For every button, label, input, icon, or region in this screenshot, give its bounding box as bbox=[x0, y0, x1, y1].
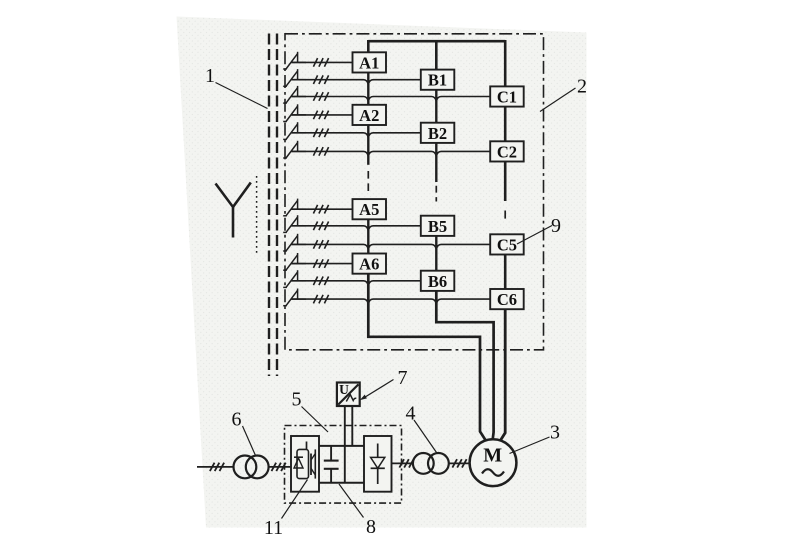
svg-text:U: U bbox=[339, 382, 349, 397]
svg-text:7: 7 bbox=[398, 367, 408, 389]
svg-text:4: 4 bbox=[406, 403, 416, 425]
svg-text:A2: A2 bbox=[359, 106, 379, 125]
svg-text:B5: B5 bbox=[428, 217, 447, 236]
svg-text:M: M bbox=[483, 445, 502, 467]
svg-text:B1: B1 bbox=[428, 71, 447, 90]
svg-text:A5: A5 bbox=[359, 200, 379, 219]
svg-text:C1: C1 bbox=[497, 88, 517, 107]
svg-text:3: 3 bbox=[550, 422, 560, 444]
svg-text:6: 6 bbox=[232, 409, 242, 431]
svg-text:2: 2 bbox=[577, 76, 587, 98]
svg-text:B2: B2 bbox=[428, 124, 447, 143]
svg-text:9: 9 bbox=[551, 215, 561, 237]
svg-text:1: 1 bbox=[205, 65, 215, 87]
svg-text:A1: A1 bbox=[359, 53, 379, 72]
svg-text:C5: C5 bbox=[497, 235, 517, 254]
svg-text:11: 11 bbox=[264, 517, 283, 539]
svg-text:C6: C6 bbox=[497, 290, 517, 309]
svg-text:C2: C2 bbox=[497, 142, 517, 161]
svg-text:B6: B6 bbox=[428, 272, 447, 291]
svg-text:5: 5 bbox=[292, 389, 302, 411]
svg-text:A6: A6 bbox=[359, 255, 379, 274]
svg-text:8: 8 bbox=[366, 516, 376, 538]
